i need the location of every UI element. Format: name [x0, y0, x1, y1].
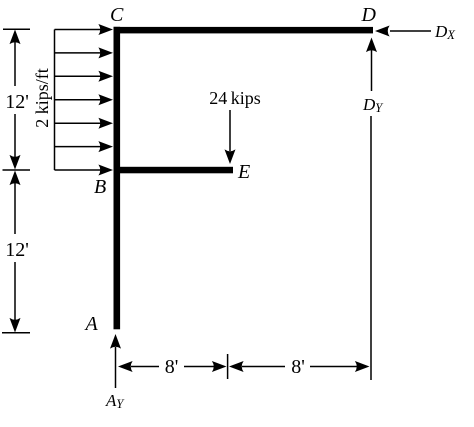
svg-text:B: B — [94, 176, 106, 198]
member A-C (vertical beam) — [114, 27, 121, 330]
dimension 8' right: right arrow — [310, 361, 370, 372]
svg-text:8': 8' — [165, 356, 179, 378]
distributed load arrow 6 — [55, 141, 114, 152]
dimension 8' left: right arrow — [184, 361, 227, 372]
svg-text:DX: DX — [434, 22, 456, 42]
distributed load arrow 2 — [55, 47, 114, 58]
dimension 8' left: left arrow — [118, 361, 159, 372]
reaction arrow A_Y — [110, 334, 121, 388]
distributed load arrow 5 — [55, 118, 114, 129]
svg-text:2 kips/ft: 2 kips/ft — [32, 68, 52, 128]
svg-text:12': 12' — [5, 91, 29, 113]
distributed load arrow 1 — [55, 24, 114, 35]
reaction arrow D_Y — [366, 38, 377, 92]
svg-text:24 kips: 24 kips — [209, 88, 261, 108]
dimension 12' upper arrow up — [10, 30, 21, 87]
distributed load arrow 4 — [55, 94, 114, 105]
svg-text:8': 8' — [291, 356, 305, 378]
dimension 12' lower arrow down — [10, 262, 21, 333]
svg-text:12': 12' — [5, 239, 29, 261]
bottom dimension center tick — [227, 354, 229, 379]
svg-text:DY: DY — [362, 95, 384, 115]
svg-text:D: D — [361, 4, 377, 26]
extension line from D down to base dimension — [370, 116, 372, 380]
distributed load arrow 3 — [55, 71, 114, 82]
point load 24 kips arrow — [225, 110, 236, 164]
member C-D (top beam) — [114, 27, 374, 34]
left dimension bottom tick — [2, 332, 30, 334]
svg-text:A: A — [84, 313, 99, 335]
left dimension top tick — [3, 28, 30, 30]
dimension 12' lower arrow up — [10, 171, 21, 235]
member B-E (middle beam) — [114, 167, 234, 174]
svg-text:AY: AY — [105, 391, 125, 411]
svg-text:E: E — [237, 161, 250, 183]
left dimension middle tick — [3, 169, 31, 171]
distributed load vertical line — [54, 30, 56, 171]
distributed load arrow 7 — [55, 165, 114, 176]
reaction arrow D_X — [375, 26, 431, 37]
svg-text:C: C — [110, 4, 124, 26]
dimension 8' right: left arrow — [229, 361, 285, 372]
dimension 12' upper arrow down — [10, 114, 21, 170]
